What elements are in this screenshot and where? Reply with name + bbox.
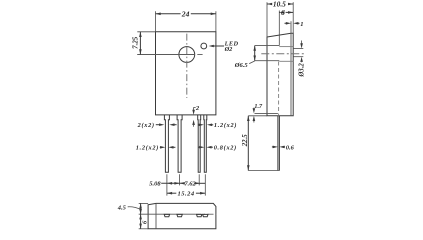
hidden lead line in body: [278, 62, 280, 116]
svg-text:Ø6.5: Ø6.5: [234, 62, 249, 69]
lead 3 cross-section mark (bottom view): [197, 214, 202, 216]
dimension 7.25 (hole position): [133, 32, 156, 55]
svg-text:1.2(x2): 1.2(x2): [136, 145, 159, 152]
label 0.8(x2) lead narrow width right: [198, 144, 237, 151]
dimension 7.62 (lead pitch): [180, 181, 206, 188]
svg-text:7.25: 7.25: [133, 36, 140, 49]
dimension 24 (body width): [156, 9, 216, 31]
dimension 6: [279, 8, 293, 46]
side view bottom step line: [255, 112, 278, 114]
hole vertical centerline: [186, 34, 188, 98]
side view internal front-plate line: [290, 21, 292, 116]
svg-text:24: 24: [181, 9, 190, 18]
dimension 5.08 (lead pitch): [149, 181, 183, 188]
svg-text:1: 1: [300, 21, 303, 28]
bottom view outline: [148, 203, 216, 228]
svg-text:2(x2): 2(x2): [137, 122, 155, 129]
side view lead: [278, 116, 280, 171]
dimension 0.6 (lead thickness): [272, 145, 295, 152]
dimension 1.7 (base lip): [253, 103, 263, 122]
LED lens circle: [201, 43, 207, 49]
svg-text:5.08: 5.08: [149, 181, 161, 188]
lead 2 cross-section mark (bottom view): [177, 214, 182, 216]
svg-text:2: 2: [195, 105, 200, 112]
bottom view front face line: [155, 203, 157, 228]
lead 2 (front view): [177, 115, 182, 172]
hole horizontal centerline: [137, 54, 202, 56]
svg-text:Ø3.2: Ø3.2: [298, 63, 305, 78]
lead 1 (front view): [164, 115, 169, 172]
svg-text:Ø2: Ø2: [224, 46, 233, 53]
hidden hole lines: [279, 47, 293, 62]
lead 4 cross-section mark (bottom view): [203, 214, 208, 216]
dimension 2 (lead shoulder length): [192, 105, 200, 127]
lead extension lines: [167, 174, 205, 195]
svg-text:1.2(x2): 1.2(x2): [214, 122, 237, 129]
svg-text:6: 6: [142, 220, 149, 224]
lead 1 cross-section mark (bottom view): [164, 214, 169, 216]
bottom view extension lines: [139, 203, 148, 228]
dimension diam 3.2 (hole): [298, 41, 305, 78]
svg-text:0.6: 0.6: [286, 145, 295, 152]
side view package body: [267, 33, 293, 116]
svg-text:0.8(x2): 0.8(x2): [214, 144, 237, 151]
svg-text:6: 6: [281, 8, 285, 17]
mounting hole boss circle (front): [179, 47, 195, 63]
bottom view lead row centerline: [139, 213, 217, 215]
dimension 10.5 (body depth): [267, 0, 293, 37]
label 1.2(x2) lead wide width right: [198, 122, 237, 129]
svg-text:22.5: 22.5: [242, 134, 249, 147]
diam 3.2 extension lines: [293, 49, 303, 57]
lead 4 (front view): [204, 115, 207, 172]
svg-text:4.5: 4.5: [117, 204, 127, 211]
svg-text:15.24: 15.24: [178, 191, 195, 198]
dimension 15.24 (lead span): [167, 191, 205, 198]
label 1.2(x2) lead narrow width left: [136, 145, 176, 152]
svg-text:1.7: 1.7: [254, 103, 263, 110]
side hole centerline: [261, 53, 305, 55]
LED label and leader: [209, 41, 239, 54]
dimension diam 6.5 (boss): [234, 46, 256, 69]
label 2(x2) lead wide width: [137, 122, 177, 129]
lead 3 (front view): [198, 115, 201, 172]
dimension 4.5 and 6 arrows: [139, 203, 142, 228]
boss profile lines: [255, 46, 280, 61]
dimension 1 (front plate): [285, 21, 304, 28]
front view package body: [156, 32, 216, 115]
dimension 22.5 (lead length): [242, 116, 279, 171]
dimension 4.5 leader and text: [117, 204, 141, 211]
